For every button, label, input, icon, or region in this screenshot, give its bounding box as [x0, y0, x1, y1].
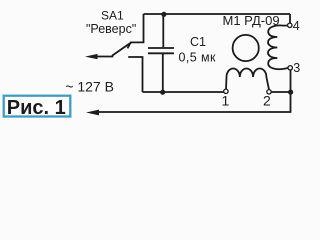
- svg-text:SA1: SA1: [101, 9, 124, 23]
- svg-text:4: 4: [293, 19, 300, 33]
- svg-text:2: 2: [263, 93, 271, 109]
- svg-text:М1 РД-09: М1 РД-09: [223, 13, 280, 28]
- svg-text:3: 3: [293, 61, 300, 75]
- svg-text:C1: C1: [190, 35, 206, 49]
- svg-text:"Реверс": "Реверс": [86, 22, 136, 36]
- svg-text:1: 1: [222, 93, 230, 109]
- svg-text:Рис. 1: Рис. 1: [7, 97, 66, 119]
- svg-text:~ 127 В: ~ 127 В: [65, 79, 114, 95]
- svg-text:0,5 мк: 0,5 мк: [179, 50, 216, 64]
